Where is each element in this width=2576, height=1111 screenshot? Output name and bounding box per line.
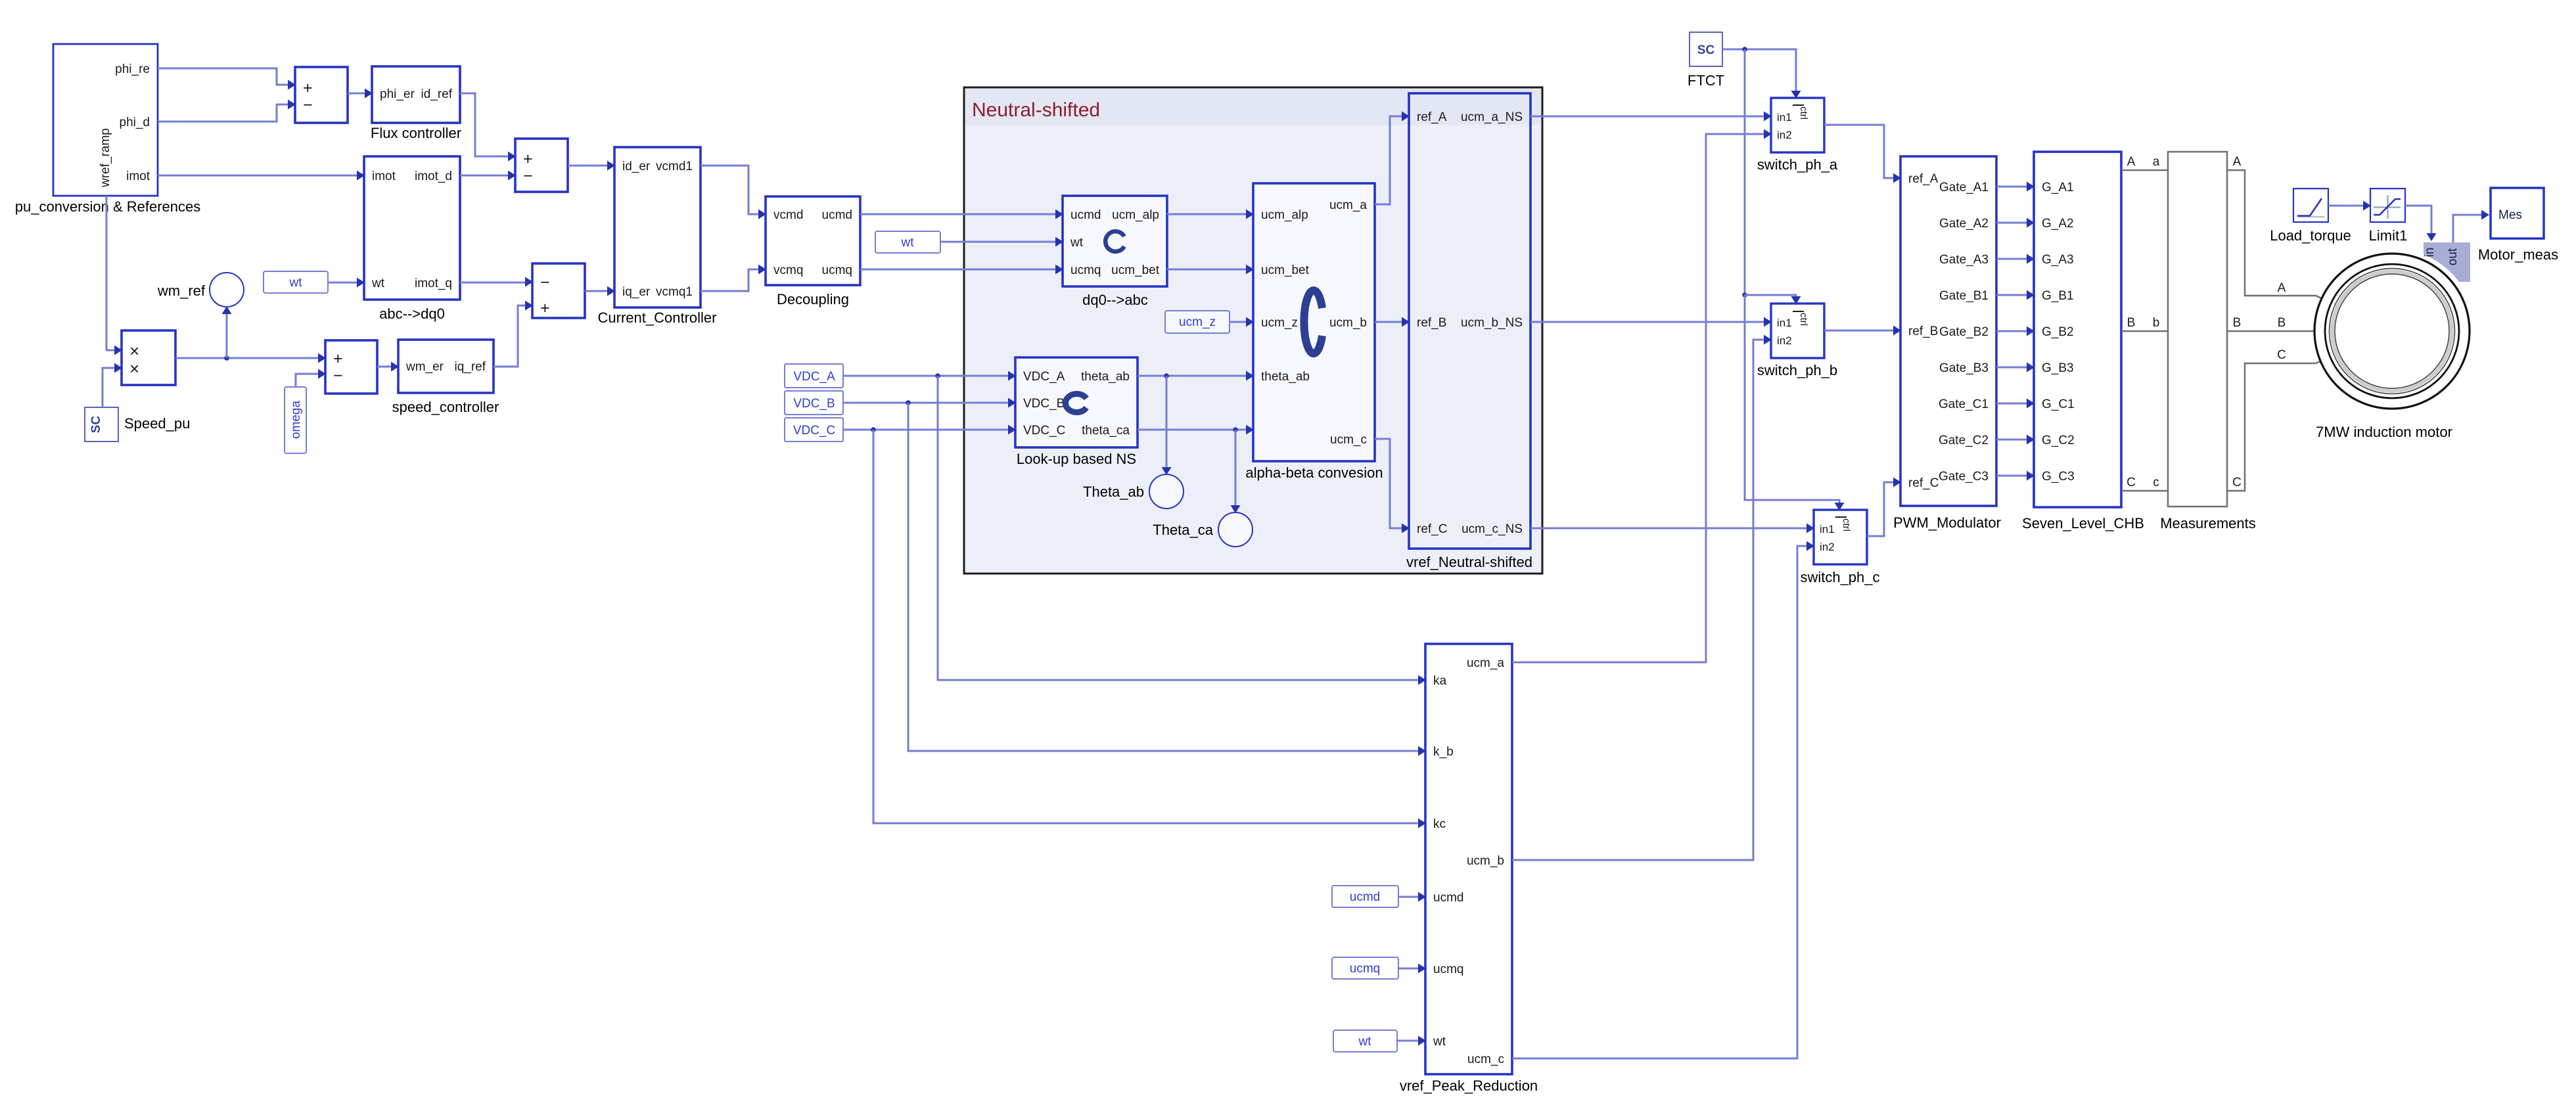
svg-text:SC: SC bbox=[1697, 43, 1715, 57]
svg-text:×: × bbox=[129, 359, 139, 378]
block Load_torque bbox=[2293, 189, 2328, 222]
svg-text:Neutral-shifted: Neutral-shifted bbox=[972, 99, 1100, 121]
svg-text:vref_Peak_Reduction: vref_Peak_Reduction bbox=[1400, 1077, 1538, 1094]
block sum Sum3 bbox=[532, 263, 585, 318]
block FTCT (SC) bbox=[1690, 32, 1722, 66]
svg-text:wt: wt bbox=[1433, 1035, 1446, 1049]
wire Sum3 to Current_Controller iq_er bbox=[585, 290, 613, 292]
block sum Sum1 bbox=[295, 67, 348, 123]
wire ucm_z to alpha-beta bbox=[1230, 321, 1252, 323]
svg-text:in2: in2 bbox=[1777, 129, 1792, 141]
svg-text:out: out bbox=[2446, 248, 2460, 265]
tag VDC_A (goto) bbox=[785, 364, 843, 388]
svg-text:vcmd1: vcmd1 bbox=[656, 160, 693, 173]
svg-text:ref_A: ref_A bbox=[1417, 110, 1447, 124]
svg-text:ucmd: ucmd bbox=[822, 208, 852, 222]
block vref_Neutral-shifted bbox=[1409, 93, 1530, 549]
svg-text:VDC_B: VDC_B bbox=[1023, 397, 1065, 411]
wire Speed_pu to Product bbox=[103, 368, 120, 407]
wire VDC_B to Look-up bbox=[843, 402, 1014, 404]
svg-text:G_A2: G_A2 bbox=[2042, 217, 2074, 231]
wire ucmd to dq0-abc bbox=[860, 214, 1061, 215]
svg-text:k_b: k_b bbox=[1433, 745, 1454, 759]
block dq0--&gt;abc bbox=[1063, 196, 1167, 286]
block Limit1 bbox=[2370, 189, 2405, 222]
svg-text:id_ref: id_ref bbox=[421, 87, 452, 101]
svg-text:G_B2: G_B2 bbox=[2042, 325, 2074, 339]
tag VDC_C (goto) bbox=[785, 418, 843, 442]
wire Gate_A2 to Seven_Level_CHB bbox=[1996, 222, 2033, 224]
wire wref_ramp down to Product bbox=[106, 196, 120, 350]
svg-text:in1: in1 bbox=[1777, 317, 1792, 329]
svg-text:in2: in2 bbox=[1820, 541, 1835, 553]
wire motor out to Motor_meas bbox=[2453, 215, 2487, 242]
block PWM_Modulator bbox=[1900, 156, 1996, 506]
wire id_ref to Sum2 bbox=[460, 93, 514, 156]
svg-text:VDC_B: VDC_B bbox=[793, 397, 835, 411]
block speed_controller bbox=[398, 340, 494, 393]
svg-text:vcmq1: vcmq1 bbox=[656, 285, 693, 299]
wire Gate_A1 to Seven_Level_CHB bbox=[1996, 186, 2033, 188]
wire phase A to motor bbox=[2227, 170, 2324, 300]
wire branch up to wm_ref scope bbox=[226, 308, 228, 358]
svg-text:VDC_A: VDC_A bbox=[1023, 370, 1065, 384]
wire ucm_bet to alpha-beta bbox=[1167, 269, 1252, 271]
svg-text:iq_er: iq_er bbox=[622, 285, 651, 299]
block Decoupling bbox=[766, 196, 860, 285]
svg-text:imot_d: imot_d bbox=[415, 170, 452, 183]
wire Gate_B2 to Seven_Level_CHB bbox=[1996, 330, 2033, 332]
wire ucm_a_NS to switch_ph_a in1 bbox=[1530, 116, 1770, 118]
svg-text:SC: SC bbox=[89, 416, 103, 434]
svg-text:Limit1: Limit1 bbox=[2369, 227, 2408, 244]
svg-text:Theta_ab: Theta_ab bbox=[1083, 484, 1144, 500]
svg-text:wt: wt bbox=[1358, 1035, 1372, 1049]
svg-text:C: C bbox=[2127, 476, 2136, 489]
wire omega to Sum4 bbox=[296, 374, 324, 387]
svg-text:Measurements: Measurements bbox=[2160, 515, 2256, 532]
block sum Sum4 bbox=[325, 340, 377, 394]
svg-text:7MW induction motor: 7MW induction motor bbox=[2316, 424, 2452, 440]
svg-text:G_A1: G_A1 bbox=[2042, 181, 2074, 194]
svg-text:Speed_pu: Speed_pu bbox=[124, 415, 190, 432]
block switch_ph_b bbox=[1771, 304, 1824, 358]
svg-text:ucmd: ucmd bbox=[1433, 891, 1463, 905]
svg-text:ctrl: ctrl bbox=[1798, 313, 1809, 326]
svg-text:ucm_z: ucm_z bbox=[1261, 316, 1298, 330]
wire ucm_c_NS to switch_ph_c in1 bbox=[1530, 528, 1812, 530]
wire switch_ph_c to PWM ref_C bbox=[1867, 482, 1899, 536]
svg-text:wt: wt bbox=[289, 276, 303, 290]
svg-text:ucm_a_NS: ucm_a_NS bbox=[1461, 110, 1523, 124]
svg-text:×: × bbox=[129, 341, 139, 361]
block abc--&gt;dq0 bbox=[364, 156, 460, 300]
svg-text:Current_Controller: Current_Controller bbox=[598, 309, 717, 326]
svg-text:G_C3: G_C3 bbox=[2042, 470, 2075, 484]
wire wt tag to dq0-abc bbox=[940, 241, 1061, 243]
svg-text:wm_er: wm_er bbox=[405, 360, 444, 374]
block Current_Controller bbox=[614, 147, 701, 307]
svg-text:ucmq: ucmq bbox=[1433, 963, 1463, 976]
svg-text:in: in bbox=[2423, 248, 2437, 258]
svg-text:omega: omega bbox=[289, 401, 303, 440]
wire Gate_C1 to Seven_Level_CHB bbox=[1996, 403, 2033, 405]
wire wt tag to vref_Peak_Reduction bbox=[1397, 1040, 1424, 1042]
block Measurements bbox=[2168, 152, 2227, 507]
block switch_ph_c bbox=[1814, 510, 1867, 564]
wire Gate_B3 to Seven_Level_CHB bbox=[1996, 367, 2033, 369]
svg-text:G_C2: G_C2 bbox=[2042, 434, 2075, 447]
svg-text:C: C bbox=[2277, 348, 2286, 362]
svg-text:C: C bbox=[2232, 476, 2242, 489]
svg-text:id_er: id_er bbox=[622, 160, 651, 173]
wire ucm_a to vref ref_A bbox=[1375, 116, 1408, 204]
svg-text:VDC_A: VDC_A bbox=[793, 370, 835, 384]
svg-text:+: + bbox=[523, 150, 533, 168]
svg-text:dq0-->abc: dq0-->abc bbox=[1082, 292, 1148, 308]
svg-text:ka: ka bbox=[1433, 674, 1447, 688]
wire vcmq1 to Decoupling bbox=[701, 269, 764, 291]
wire VDC_C branch to kc bbox=[873, 430, 1424, 823]
wire vcmd1 to Decoupling bbox=[701, 166, 764, 214]
svg-text:ucm_c_NS: ucm_c_NS bbox=[1461, 522, 1523, 536]
svg-text:−: − bbox=[333, 367, 343, 385]
svg-text:ucm_b: ucm_b bbox=[1329, 316, 1367, 330]
svg-text:Mes: Mes bbox=[2498, 208, 2522, 222]
svg-text:c: c bbox=[2153, 476, 2159, 489]
wire phase A CHB to Measurements bbox=[2121, 170, 2168, 171]
svg-text:Gate_B3: Gate_B3 bbox=[1939, 361, 1989, 375]
wire Gate_C2 to Seven_Level_CHB bbox=[1996, 439, 2033, 441]
wire ucmq to dq0-abc bbox=[860, 269, 1061, 271]
tag wt (goto near abc-dq0) bbox=[264, 271, 328, 293]
block Motor_meas (Mes) bbox=[2491, 188, 2544, 238]
svg-text:ucm_b_NS: ucm_b_NS bbox=[1461, 316, 1523, 330]
icon C glyph of alpha-beta convesion bbox=[1304, 290, 1322, 353]
wire wt tag to abc-dq0 bbox=[328, 282, 363, 284]
wire switch_ph_a to PWM ref_A bbox=[1824, 125, 1899, 178]
icon ramp of Load_torque bbox=[2298, 216, 2324, 217]
wire Gate_A3 to Seven_Level_CHB bbox=[1996, 258, 2033, 260]
svg-text:switch_ph_a: switch_ph_a bbox=[1757, 156, 1838, 173]
block Flux controller bbox=[372, 66, 460, 123]
scope wm_ref bbox=[210, 273, 244, 307]
svg-text:+: + bbox=[303, 79, 313, 97]
wire Product to Sum4 bbox=[175, 357, 324, 359]
svg-text:ref_B: ref_B bbox=[1417, 316, 1446, 330]
svg-text:b: b bbox=[2153, 316, 2160, 330]
motor 7MW induction motor bbox=[2314, 254, 2470, 409]
svg-text:alpha-beta convesion: alpha-beta convesion bbox=[1245, 465, 1383, 481]
wire ucm_b to switch_ph_b in2 bbox=[1512, 340, 1770, 860]
scope Theta_ab bbox=[1149, 474, 1184, 509]
svg-text:Flux controller: Flux controller bbox=[371, 125, 461, 141]
wire switch_ph_b to PWM ref_B bbox=[1824, 330, 1899, 332]
svg-text:−: − bbox=[523, 167, 533, 185]
svg-text:ucm_alp: ucm_alp bbox=[1112, 208, 1159, 222]
svg-text:ucmq: ucmq bbox=[1350, 962, 1380, 976]
wire ucmq tag to vref_Peak_Reduction bbox=[1398, 968, 1424, 970]
svg-text:imot_q: imot_q bbox=[415, 277, 452, 290]
svg-text:abc-->dq0: abc-->dq0 bbox=[379, 306, 445, 322]
wire ucm_c to switch_ph_c in2 bbox=[1512, 546, 1812, 1058]
svg-text:ucm_z: ucm_z bbox=[1179, 315, 1216, 329]
svg-text:phi_re: phi_re bbox=[115, 62, 150, 76]
svg-text:+: + bbox=[333, 350, 343, 368]
svg-text:+: + bbox=[540, 299, 550, 317]
tag omega (goto vertical) bbox=[285, 387, 306, 453]
svg-text:A: A bbox=[2233, 155, 2242, 169]
svg-text:in1: in1 bbox=[1820, 523, 1835, 535]
svg-text:a: a bbox=[2153, 155, 2160, 169]
tag ucmq (goto) bbox=[1332, 957, 1398, 979]
svg-text:switch_ph_c: switch_ph_c bbox=[1800, 569, 1879, 585]
icon saturation of Limit1 bbox=[2374, 206, 2401, 208]
svg-text:theta_ca: theta_ca bbox=[1082, 424, 1130, 438]
svg-text:ucm_a: ucm_a bbox=[1329, 198, 1367, 212]
wire theta_ab branch to Theta_ab scope bbox=[1166, 376, 1168, 473]
svg-text:wm_ref: wm_ref bbox=[157, 283, 206, 299]
svg-text:vcmd: vcmd bbox=[773, 208, 803, 222]
svg-text:Gate_A1: Gate_A1 bbox=[1939, 181, 1989, 194]
svg-text:VDC_C: VDC_C bbox=[1023, 424, 1065, 438]
wire FTCT to switch_ph_a ctrl bbox=[1722, 49, 1796, 96]
tag wt (goto bottom) bbox=[1333, 1030, 1397, 1052]
svg-text:phi_er: phi_er bbox=[380, 87, 415, 101]
svg-text:−: − bbox=[540, 273, 550, 292]
wire ucm_a to switch_ph_a in2 bbox=[1512, 134, 1770, 662]
wire Gate_C3 to Seven_Level_CHB bbox=[1996, 475, 2033, 477]
wire Limit1 to motor in bbox=[2405, 206, 2431, 238]
block Speed_pu (SC) bbox=[85, 407, 118, 442]
svg-text:ctrl: ctrl bbox=[1841, 518, 1852, 532]
tag wt (goto near Decoupling) bbox=[875, 231, 940, 253]
svg-text:in1: in1 bbox=[1777, 111, 1792, 124]
svg-text:vcmq: vcmq bbox=[773, 263, 803, 277]
svg-text:Motor_meas: Motor_meas bbox=[2478, 246, 2558, 263]
svg-text:Gate_C3: Gate_C3 bbox=[1939, 470, 1989, 484]
wire ctrl to switch_ph_b bbox=[1745, 295, 1796, 302]
svg-text:ctrl: ctrl bbox=[1798, 106, 1809, 120]
wire Sum4 to speed_controller bbox=[377, 366, 397, 368]
tag ucmd (goto) bbox=[1332, 886, 1398, 907]
svg-text:−: − bbox=[303, 96, 313, 114]
svg-text:theta_ab: theta_ab bbox=[1081, 370, 1130, 384]
svg-text:Gate_B2: Gate_B2 bbox=[1939, 325, 1989, 339]
svg-text:G_B3: G_B3 bbox=[2042, 361, 2074, 375]
svg-text:vref_Neutral-shifted: vref_Neutral-shifted bbox=[1406, 554, 1532, 570]
block switch_ph_a bbox=[1771, 98, 1824, 152]
wire ucm_alp to alpha-beta bbox=[1167, 214, 1252, 215]
svg-text:G_A3: G_A3 bbox=[2042, 253, 2074, 267]
wire iq_ref to Sum3 bbox=[494, 306, 531, 367]
wire Sum2 to Current_Controller id_er bbox=[568, 165, 613, 167]
wire Load_torque to Limit1 bbox=[2328, 205, 2369, 207]
wire phase B to motor bbox=[2227, 330, 2314, 332]
svg-text:ucm_c: ucm_c bbox=[1330, 433, 1367, 447]
wire ctrl to switch_ph_c bbox=[1745, 295, 1839, 508]
tag VDC_B (goto) bbox=[785, 391, 843, 415]
wire phi_d to Sum1 bbox=[158, 104, 294, 122]
wire phase B CHB to Measurements bbox=[2121, 330, 2168, 332]
svg-text:Theta_ca: Theta_ca bbox=[1153, 522, 1213, 538]
svg-text:ucm_a: ucm_a bbox=[1467, 656, 1504, 670]
svg-text:wt: wt bbox=[901, 236, 915, 250]
svg-text:Gate_C1: Gate_C1 bbox=[1939, 397, 1989, 411]
wire ucm_c to vref ref_C bbox=[1375, 439, 1408, 528]
svg-text:wt: wt bbox=[371, 277, 385, 290]
wire VDC_B branch to k_b bbox=[908, 403, 1424, 751]
wire ctrl chain down bbox=[1744, 49, 1746, 295]
svg-text:Gate_C2: Gate_C2 bbox=[1939, 434, 1989, 447]
wire imot to abc-dq0 bbox=[158, 175, 363, 177]
icon C glyph of dq0-abc bbox=[1105, 231, 1124, 252]
svg-text:ref_B: ref_B bbox=[1908, 325, 1938, 338]
svg-text:PWM_Modulator: PWM_Modulator bbox=[1893, 514, 2001, 531]
svg-text:kc: kc bbox=[1433, 817, 1446, 831]
svg-text:pu_conversion & References: pu_conversion & References bbox=[15, 198, 201, 215]
svg-text:Gate_A2: Gate_A2 bbox=[1939, 217, 1989, 231]
wire imot_q to Sum3 bbox=[460, 282, 531, 284]
wire phi_re to Sum1 bbox=[158, 68, 294, 85]
block vref_Peak_Reduction bbox=[1425, 644, 1512, 1074]
svg-text:Seven_Level_CHB: Seven_Level_CHB bbox=[2022, 515, 2144, 532]
svg-text:Look-up based NS: Look-up based NS bbox=[1017, 451, 1136, 467]
svg-text:imot: imot bbox=[126, 170, 150, 183]
svg-text:iq_ref: iq_ref bbox=[454, 360, 486, 374]
svg-text:ucm_b: ucm_b bbox=[1467, 854, 1504, 868]
wire imot_d to Sum2 bbox=[460, 175, 514, 177]
port panel in/out of motor bbox=[2424, 242, 2470, 282]
svg-text:Load_torque: Load_torque bbox=[2270, 227, 2351, 244]
svg-text:G_B1: G_B1 bbox=[2042, 289, 2074, 303]
wire Gate_B1 to Seven_Level_CHB bbox=[1996, 294, 2033, 296]
svg-text:switch_ph_b: switch_ph_b bbox=[1757, 362, 1837, 378]
wire phase C to motor bbox=[2227, 360, 2324, 491]
svg-text:wt: wt bbox=[1070, 236, 1084, 250]
svg-text:ucm_c: ucm_c bbox=[1467, 1053, 1504, 1066]
svg-text:ucmd: ucmd bbox=[1350, 890, 1380, 904]
tag ucm_z (goto) bbox=[1165, 311, 1230, 333]
scope Theta_ca bbox=[1218, 512, 1253, 547]
wire VDC_A branch to ka bbox=[938, 376, 1424, 680]
block sum Sum2 bbox=[515, 139, 568, 192]
group Neutral-shifted area bbox=[964, 87, 1542, 574]
block Seven_Level_CHB bbox=[2034, 152, 2121, 507]
svg-text:ucmd: ucmd bbox=[1070, 208, 1101, 222]
svg-text:B: B bbox=[2233, 316, 2242, 330]
wire Sum1 to Flux controller bbox=[348, 93, 371, 95]
block product Product bbox=[122, 330, 175, 385]
svg-text:ucm_alp: ucm_alp bbox=[1261, 208, 1308, 222]
block pu_conversion &amp; References bbox=[53, 44, 158, 196]
wire ucmd tag to vref_Peak_Reduction bbox=[1398, 896, 1424, 898]
svg-text:speed_controller: speed_controller bbox=[392, 399, 499, 415]
svg-text:FTCT: FTCT bbox=[1688, 72, 1724, 89]
svg-text:VDC_C: VDC_C bbox=[793, 424, 835, 438]
svg-text:B: B bbox=[2278, 316, 2286, 330]
svg-text:Decoupling: Decoupling bbox=[777, 291, 849, 307]
svg-text:phi_d: phi_d bbox=[120, 116, 150, 129]
wire theta_ca to alpha-beta bbox=[1138, 429, 1252, 431]
svg-text:ref_A: ref_A bbox=[1908, 172, 1939, 186]
svg-text:B: B bbox=[2127, 316, 2136, 330]
svg-text:ucmq: ucmq bbox=[1070, 263, 1101, 277]
wire theta_ab to alpha-beta bbox=[1138, 375, 1252, 377]
svg-text:ucm_bet: ucm_bet bbox=[1261, 263, 1310, 277]
svg-text:wref_ramp: wref_ramp bbox=[99, 128, 112, 188]
wire ucm_b to vref ref_B bbox=[1375, 321, 1408, 323]
wire VDC_A to Look-up bbox=[843, 375, 1014, 377]
svg-text:G_C1: G_C1 bbox=[2042, 397, 2075, 411]
svg-text:in2: in2 bbox=[1777, 334, 1792, 347]
block Look-up based NS bbox=[1015, 357, 1138, 447]
svg-text:ucm_bet: ucm_bet bbox=[1111, 263, 1160, 277]
wire theta_ca branch to Theta_ca scope bbox=[1235, 430, 1237, 511]
wire phase C CHB to Measurements bbox=[2121, 490, 2168, 492]
svg-text:ref_C: ref_C bbox=[1908, 476, 1939, 490]
svg-text:A: A bbox=[2127, 155, 2136, 169]
svg-text:A: A bbox=[2278, 281, 2286, 295]
svg-text:theta_ab: theta_ab bbox=[1261, 370, 1310, 384]
wire VDC_C to Look-up bbox=[843, 429, 1014, 431]
svg-text:Gate_A3: Gate_A3 bbox=[1939, 253, 1989, 267]
block alpha-beta convesion bbox=[1253, 183, 1375, 461]
svg-text:ucmq: ucmq bbox=[822, 263, 852, 277]
svg-text:imot: imot bbox=[372, 170, 396, 183]
svg-text:ref_C: ref_C bbox=[1417, 522, 1447, 536]
icon C glyph of Look-up based NS bbox=[1065, 394, 1086, 413]
svg-text:Gate_B1: Gate_B1 bbox=[1939, 289, 1989, 303]
wire ucm_b_NS to switch_ph_b in1 bbox=[1530, 321, 1770, 323]
